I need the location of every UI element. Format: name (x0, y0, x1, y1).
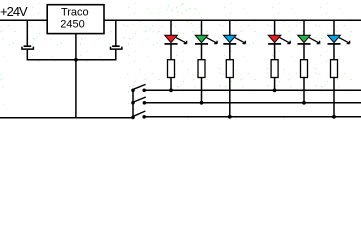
net label +24V (0, 4, 28, 19)
resistor R1 (168, 60, 175, 93)
LED D5 green (298, 20, 320, 60)
capacitor C2 (111, 20, 122, 60)
LED D1 red (165, 20, 187, 60)
wire bottom ground rail (0, 117, 133, 119)
wire +24V input to converter (0, 19, 47, 21)
resistor R5 (301, 60, 308, 105)
resistor R3 (226, 60, 233, 119)
LED D4 red (268, 20, 290, 60)
switch S1 (131, 84, 146, 92)
wire bus L2 (green channel) (144, 102, 361, 104)
wire output bus (top supply rail) (104, 19, 361, 21)
svg-text:+24V: +24V (0, 4, 28, 19)
LED D3 blue (223, 20, 245, 60)
wire ground link C1 to C2 (27, 59, 117, 61)
svg-text:2450: 2450 (60, 19, 84, 31)
switch S2 (131, 97, 146, 105)
resistor R4 (271, 60, 278, 93)
wire bus L3 (blue channel) (144, 116, 361, 118)
resistor R6 (331, 60, 338, 119)
switch S3 (131, 111, 146, 119)
wire converter return (vertical from box bottom) (75, 34, 77, 118)
LED D2 green (195, 20, 217, 60)
DC-DC converter U1 Traco 2450 (47, 5, 104, 34)
LED D6 blue (328, 20, 350, 60)
svg-text:Traco: Traco (61, 7, 89, 19)
resistor R2 (198, 60, 205, 105)
capacitor C1 (22, 20, 33, 60)
node junction at ground link (74, 58, 78, 62)
wire switch bus vertical (132, 90, 134, 118)
wire bus L1 (red channel) (144, 89, 361, 91)
